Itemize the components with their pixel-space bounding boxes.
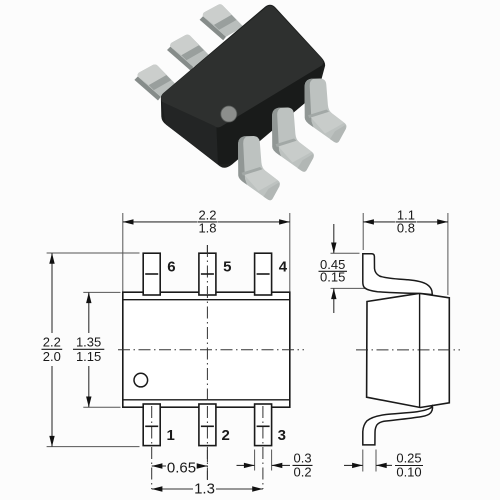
pin 1 tick [145, 425, 158, 427]
pin 5 center line [206, 245, 208, 294]
dimension text 2.2/1.8 [198, 207, 218, 235]
svg-text:2: 2 [222, 427, 230, 444]
dimension 0.25/0.10 extension lines [363, 450, 376, 472]
svg-text:1.3: 1.3 [194, 481, 215, 498]
side view center line [356, 349, 460, 351]
3d lead top-left 3 [200, 4, 244, 40]
dimension text 2.2/2.0 [42, 335, 63, 365]
svg-text:3: 3 [278, 427, 286, 444]
dimension 1.3 [152, 481, 263, 498]
dimension 0.3/0.2 arrows [237, 463, 291, 468]
svg-text:1.8: 1.8 [198, 220, 216, 235]
dimension 2.2/1.8 extension lines [123, 213, 290, 292]
horizontal center line [118, 349, 304, 351]
dimension text 1.35/1.15 [73, 335, 104, 365]
body inner line bottom [123, 399, 290, 401]
dimension 0.3/0.2 extension lines [255, 450, 272, 471]
dimension text 0.45/0.15 [319, 257, 348, 285]
3d lead top-left 1 [134, 64, 178, 100]
top view drawing [42, 207, 313, 497]
side top lead [363, 254, 433, 295]
svg-text:1.15: 1.15 [76, 349, 101, 364]
side body outline [367, 293, 450, 407]
svg-text:0.15: 0.15 [320, 270, 345, 285]
3d pin1 dot [221, 106, 237, 122]
pin 5 tick [201, 273, 214, 275]
svg-text:0.25: 0.25 [396, 451, 421, 466]
body inner line top [123, 299, 290, 301]
dimension 1.1/0.8 line and arrows [363, 219, 448, 224]
3d lead top-left 2 [167, 35, 211, 71]
dimension 2.2/2.0 line and arrows [49, 253, 54, 447]
pin 4 tick [257, 273, 270, 275]
dimension 2.2/1.8 line and arrows [123, 219, 290, 224]
svg-text:1: 1 [167, 427, 175, 444]
pin 2 tick [201, 425, 214, 427]
svg-text:0.2: 0.2 [294, 465, 312, 480]
package body outline [123, 292, 290, 407]
dimension text 0.25/0.10 [395, 451, 423, 480]
pin 6 tick [145, 273, 158, 275]
pin 1 [143, 404, 160, 446]
dimension 0.65 [152, 460, 208, 477]
svg-text:0.8: 0.8 [397, 220, 415, 235]
svg-text:4: 4 [279, 259, 288, 276]
3d body front-right face [217, 65, 323, 165]
3d body top face [161, 6, 323, 128]
3d lead bottom-right B [272, 108, 314, 172]
pin 5 [199, 253, 216, 295]
dimension 0.45/0.15 arrows [331, 224, 336, 313]
pin 3 center line [262, 406, 264, 489]
vertical center line [206, 245, 208, 480]
3d body front-left face [162, 100, 219, 165]
pin 2 [199, 404, 216, 446]
svg-text:0.3: 0.3 [294, 451, 312, 466]
3d body silhouette [161, 5, 325, 168]
pin 3 tick [257, 425, 270, 427]
dimension 0.45/0.15 extension lines [331, 253, 373, 288]
dimension 0.25/0.10 arrows [344, 463, 392, 468]
3d lead bottom-right C [305, 79, 347, 143]
pin 4 [255, 253, 272, 295]
svg-text:6: 6 [167, 259, 175, 276]
side bottom lead [363, 406, 433, 445]
pin 6 [143, 253, 160, 295]
svg-text:5: 5 [223, 259, 231, 276]
dimension 2.2/2.0 extension lines [47, 253, 140, 447]
dimension 1.35/1.15 extension lines [83, 292, 120, 407]
svg-text:1.35: 1.35 [76, 335, 101, 350]
dimension text 0.3/0.2 [293, 451, 313, 480]
svg-text:2.2: 2.2 [43, 335, 61, 350]
dimension 1.1/0.8 extension lines [363, 213, 448, 295]
svg-text:0.65: 0.65 [167, 460, 196, 477]
pin1 indicator circle [134, 373, 148, 387]
svg-text:2.0: 2.0 [43, 349, 61, 364]
pin 3 [255, 404, 272, 446]
pin 2 center line [206, 406, 208, 480]
3d package render [134, 4, 346, 200]
3d lead bottom-right A [238, 136, 280, 200]
pin 1 center line [151, 406, 153, 489]
dimension 1.35/1.15 line and arrows [86, 292, 91, 407]
dimension text 1.1/0.8 [396, 207, 416, 235]
side body middle edge [419, 293, 421, 407]
svg-text:0.10: 0.10 [396, 464, 421, 479]
side view drawing [319, 207, 461, 479]
